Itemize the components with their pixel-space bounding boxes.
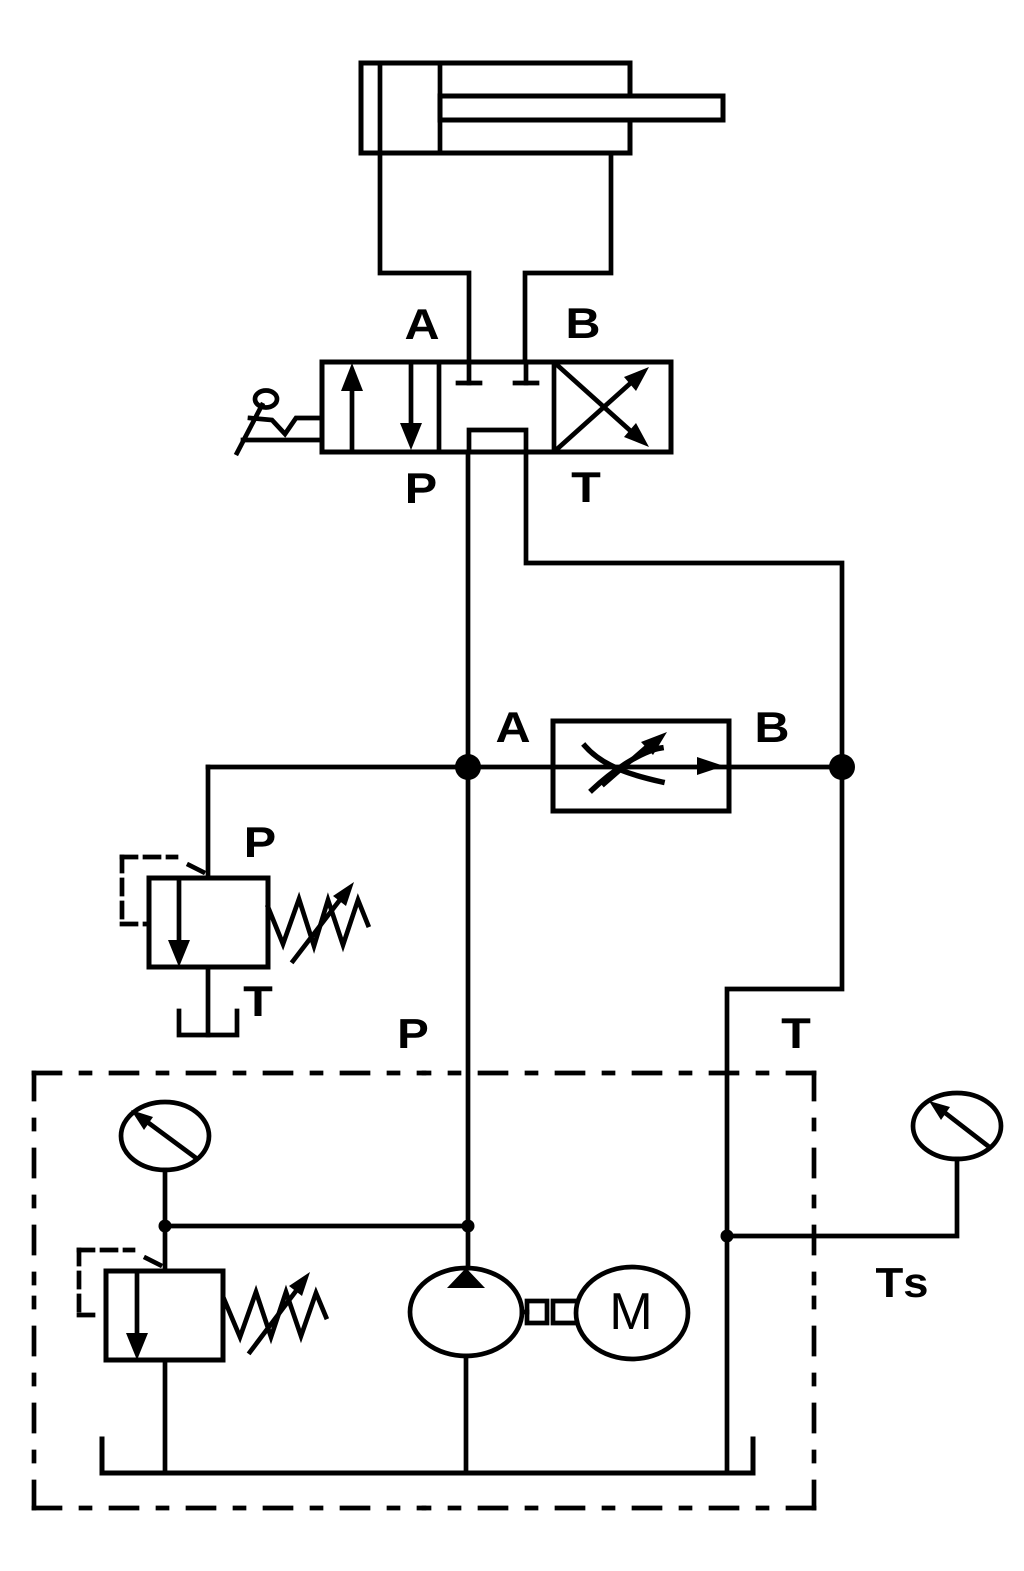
throttle arc lower — [592, 748, 661, 790]
pressure gauge G1 — [121, 1102, 209, 1170]
valve middle P-T bridge — [469, 430, 526, 452]
wire gauge G1 stem — [163, 1170, 168, 1226]
relief valve RV1 flow arrow — [168, 878, 190, 967]
junction dot P line — [462, 1220, 475, 1233]
wire cylinder port B to valve B — [525, 153, 611, 362]
wire cylinder port A to valve A — [380, 153, 469, 362]
relief valve RV2 pilot dash diagonal — [146, 1258, 160, 1265]
label T (relief valve outlet) — [244, 986, 273, 1016]
label A (flow valve left) — [497, 712, 530, 742]
wire A-B flow line — [208, 765, 842, 770]
relief valve RV1 pilot dash diagonal — [189, 865, 203, 872]
wire RV2 drain — [163, 1360, 168, 1473]
node A junction dot — [455, 754, 481, 780]
wire RV1 drain to tank — [206, 967, 211, 1035]
wire node A to relief valve — [206, 767, 211, 878]
relief valve RV2 flow arrow — [126, 1271, 148, 1360]
lever link bottom — [243, 438, 322, 443]
wire gauge G2 stem — [727, 1159, 957, 1236]
label B (flow valve right) — [758, 712, 788, 742]
wire pump outlet bottom — [464, 1356, 469, 1473]
label Ts — [876, 1268, 927, 1297]
pressure gauge G2 — [913, 1093, 1001, 1159]
throttle adjust arrow — [604, 732, 667, 784]
junction dot gauge G1 — [159, 1220, 172, 1233]
relief valve RV1 pilot dashed box — [122, 857, 176, 924]
tank symbol — [179, 1011, 237, 1035]
power unit enclosure dash-dot box — [34, 1073, 814, 1508]
pump P1 — [410, 1268, 522, 1356]
flow control valve box — [553, 721, 729, 811]
relief valve RV2 box — [106, 1271, 223, 1360]
label T (valve port) — [572, 472, 601, 502]
relief valve RV2 pilot dashed box — [79, 1250, 133, 1315]
reservoir — [102, 1439, 753, 1473]
label A (valve port) — [406, 309, 439, 339]
label B (valve port) — [569, 308, 599, 338]
label P (relief valve inlet) — [247, 827, 275, 857]
label P (power unit P port) — [400, 1019, 427, 1048]
wire RV2 inlet — [163, 1226, 168, 1271]
wire T line valve to reservoir — [526, 452, 842, 1473]
valve divider left — [437, 362, 442, 452]
throttle arc upper — [585, 746, 662, 782]
piston — [438, 63, 443, 153]
relief valve RV1 spring — [268, 899, 368, 946]
relief valve RV2 adjust arrow — [250, 1272, 310, 1352]
motor M1 — [576, 1267, 688, 1359]
label T (power unit T port) — [782, 1018, 811, 1048]
valve right cell crossed arrow up — [556, 367, 649, 450]
label P (valve port) — [408, 473, 436, 503]
flow direction arrowhead — [697, 757, 724, 775]
coupling shaft — [522, 1301, 577, 1323]
relief valve RV1 box — [149, 878, 268, 967]
valve middle blocked port B — [515, 362, 537, 383]
lever shaft — [237, 405, 262, 453]
lever knob — [255, 391, 277, 408]
directional valve body — [322, 362, 671, 452]
valve left cell up arrow — [341, 363, 363, 450]
relief valve RV2 spring — [224, 1292, 326, 1337]
valve divider right — [552, 362, 557, 452]
valve middle blocked port A — [458, 362, 480, 383]
lever link top with notch — [250, 418, 322, 434]
node B junction dot — [829, 754, 855, 780]
relief valve RV1 adjust arrow — [293, 882, 354, 961]
valve left cell down arrow — [400, 364, 422, 450]
cylinder left cap line — [378, 63, 383, 153]
valve right cell crossed arrow down — [556, 364, 649, 447]
wire gauge line to P line — [165, 1224, 468, 1229]
piston rod — [440, 96, 723, 120]
wire P line valve to pump — [466, 452, 471, 1268]
junction dot T line — [721, 1230, 734, 1243]
cylinder body — [361, 63, 630, 153]
